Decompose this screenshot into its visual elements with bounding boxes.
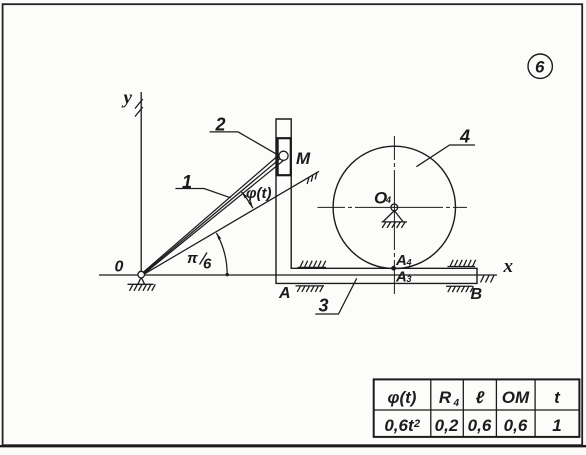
svg-text:6: 6 <box>535 58 545 77</box>
svg-text:1: 1 <box>552 416 561 435</box>
svg-text:0: 0 <box>115 259 124 276</box>
fixed guide hatching upper-right of rod 3 <box>448 260 476 267</box>
y-axis tick marks <box>135 99 143 117</box>
svg-text:B: B <box>471 286 483 303</box>
rod 1 (three converging lines from O to slider pin M) <box>144 151 284 274</box>
svg-text:2: 2 <box>413 418 420 430</box>
wheel crosshair vertical <box>393 136 395 294</box>
svg-text:t: t <box>554 388 561 407</box>
frame bottom thick line <box>0 445 586 447</box>
svg-text:4: 4 <box>406 258 412 268</box>
svg-text:3: 3 <box>407 274 412 284</box>
svg-text:1: 1 <box>182 172 192 192</box>
data table <box>374 379 580 437</box>
circled number 6 <box>528 54 552 78</box>
svg-text:0,2: 0,2 <box>435 416 459 435</box>
y-axis <box>140 92 142 275</box>
phi(t) angle arc with arrows <box>242 192 254 208</box>
wheel 4 <box>333 146 455 268</box>
svg-text:x: x <box>503 256 514 277</box>
pi/6 line end hatching <box>307 172 317 184</box>
svg-text:y: y <box>122 88 133 109</box>
contact point A4 dot <box>391 266 396 271</box>
L-shaped body: vertical guide column + horizontal rod 3 <box>276 119 477 283</box>
svg-text:A: A <box>395 269 407 286</box>
table value texts <box>384 416 561 435</box>
support under O4 <box>382 211 408 228</box>
fixed guide hatching lower-left of rod 3 (near A) <box>296 286 325 292</box>
svg-text:M: M <box>296 149 311 168</box>
pi/6 label <box>187 250 212 273</box>
svg-text:0,6: 0,6 <box>504 416 528 435</box>
pivot support at O <box>128 277 156 291</box>
pivot pin circle at O <box>138 271 145 278</box>
svg-text:4: 4 <box>385 195 391 205</box>
wheel crosshair horizontal <box>318 206 468 208</box>
table header texts <box>388 388 562 409</box>
fixed guide hatching upper-left of rod 3 <box>298 261 327 268</box>
x-axis end hatching <box>481 275 495 282</box>
svg-text:π: π <box>187 250 198 267</box>
svg-text:4: 4 <box>453 398 460 409</box>
svg-text:φ(t): φ(t) <box>388 388 417 407</box>
svg-text:6: 6 <box>203 256 212 273</box>
center pin O4 <box>391 204 398 211</box>
svg-text:A: A <box>395 252 407 269</box>
slider 2 (bold rectangle) <box>278 138 291 175</box>
svg-text:0,6: 0,6 <box>468 416 492 435</box>
svg-text:0,6t: 0,6t <box>384 416 415 435</box>
svg-text:ℓ: ℓ <box>476 388 485 407</box>
svg-text:OM: OM <box>502 388 530 407</box>
pin M circle <box>279 151 288 160</box>
pi/6 angle arc with arrow and dot <box>216 233 229 276</box>
pi/6 reference line at 30 deg <box>144 171 319 274</box>
svg-text:φ(t): φ(t) <box>246 185 272 202</box>
svg-text:3: 3 <box>319 296 329 316</box>
fixed guide hatching lower-right of rod 3 (near B) <box>446 286 474 292</box>
svg-text:R: R <box>439 388 452 407</box>
svg-text:4: 4 <box>459 127 470 147</box>
svg-text:A: A <box>278 285 291 302</box>
x-axis <box>99 274 497 276</box>
